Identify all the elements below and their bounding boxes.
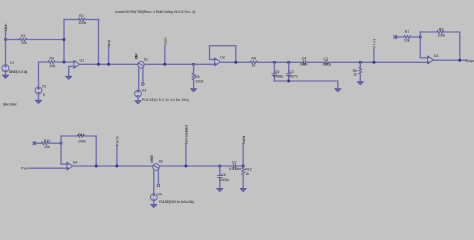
node Vlp flag	[373, 39, 377, 62]
ground wire U1 plus input	[69, 66, 74, 76]
resistor R1	[20, 34, 27, 45]
ground under R5	[190, 89, 196, 92]
svg-text:Sine 1kHz: Sine 1kHz	[3, 102, 17, 106]
wire feedback top right	[85, 19, 98, 21]
junction input node	[4, 38, 7, 41]
wire junction down to U4 inv input	[61, 143, 67, 164]
node PwrF flag	[116, 136, 120, 166]
node Vamp flag	[107, 40, 111, 64]
junction Vamp	[107, 63, 110, 66]
svg-text:V1: V1	[10, 61, 14, 65]
port In3	[394, 35, 404, 38]
wire S1 out	[144, 63, 193, 65]
svg-text:C7: C7	[232, 161, 237, 165]
junction C5	[273, 61, 276, 64]
wire cap ground rail	[274, 81, 337, 89]
svg-text:10k: 10k	[21, 41, 27, 45]
svg-text:U3: U3	[434, 54, 439, 58]
svg-text:100k: 100k	[195, 80, 203, 84]
resistor R2	[78, 14, 86, 25]
svg-text:MYSW: MYSW	[135, 53, 139, 60]
junction feedback/output	[97, 63, 100, 66]
S1 control wire to V3	[138, 68, 140, 90]
ground under V2	[35, 94, 41, 104]
svg-text:C5: C5	[275, 70, 280, 74]
resistor R9	[437, 28, 446, 38]
wire feedback top right	[444, 32, 460, 60]
S2 control wire to V4	[153, 170, 155, 194]
svg-text:C2: C2	[323, 57, 328, 61]
svg-text:PwrIn: PwrIn	[116, 136, 120, 146]
svg-text:10k: 10k	[44, 145, 50, 149]
svg-text:U1: U1	[80, 59, 85, 63]
svg-text:C3: C3	[289, 70, 294, 74]
svg-text:V2: V2	[42, 84, 46, 88]
svg-text:0.001u: 0.001u	[219, 178, 229, 182]
svg-text:R12: R12	[245, 167, 252, 171]
wire C2 to U3	[327, 61, 428, 63]
port In4	[33, 142, 42, 145]
voltage source V1	[2, 61, 27, 74]
resistor R7	[404, 30, 411, 43]
resistor R4	[250, 56, 257, 67]
node MicIn flag	[4, 24, 8, 40]
capacitor C5	[272, 62, 284, 81]
wire R4 right	[257, 61, 303, 63]
capacitor C4 series	[300, 56, 307, 66]
U2 feedback loop	[210, 46, 236, 63]
svg-text:R11: R11	[78, 133, 84, 137]
switch S1	[135, 53, 148, 68]
svg-text:R1: R1	[21, 34, 26, 38]
wire U3 output	[433, 59, 467, 61]
wire V1 up	[5, 40, 7, 65]
wire R3 to opamp	[55, 61, 74, 63]
svg-text:.model MYSW SW(Ron=.1 Roff=1Me: .model MYSW SW(Ron=.1 Roff=1Meg Vt=2.5 V…	[115, 10, 196, 14]
capacitor C2 series	[323, 57, 331, 67]
junction C1	[192, 63, 195, 66]
node Vsw flag	[163, 37, 167, 64]
wire feedback top left	[64, 19, 78, 21]
wire U1 output	[79, 63, 138, 65]
svg-text:S2: S2	[159, 160, 163, 164]
op-amp U4	[67, 161, 78, 171]
svg-text:U2: U2	[220, 55, 225, 59]
svg-text:Output: Output	[465, 59, 474, 63]
wire junction down to U3 inv input	[420, 37, 427, 58]
svg-text:V3: V3	[142, 88, 146, 92]
node PwrSw flag	[185, 125, 189, 166]
ground under R12	[240, 188, 246, 191]
ground under V1	[2, 72, 8, 79]
svg-text:R10: R10	[44, 139, 51, 143]
svg-text:PwOut: PwOut	[242, 136, 246, 144]
resistor R12	[242, 166, 252, 188]
svg-text:MYSW: MYSW	[150, 154, 154, 162]
wire V2 riser	[39, 62, 49, 87]
svg-text:R9: R9	[439, 28, 444, 32]
op-amp U1	[74, 59, 84, 69]
svg-text:C4: C4	[302, 56, 307, 60]
junction R1/feedback	[63, 38, 66, 41]
ground rail	[335, 89, 341, 92]
svg-text:R4: R4	[252, 56, 257, 60]
wire bottom rail left	[29, 167, 67, 169]
wire feedback top left	[420, 31, 437, 33]
junction summing/opamp	[63, 61, 66, 64]
resistor R5 shunt	[192, 64, 204, 88]
svg-text:5: 5	[43, 93, 45, 97]
junction U3 feedback output	[459, 59, 462, 62]
voltage source V4	[150, 192, 194, 203]
svg-text:Demodulated: Demodulated	[185, 125, 189, 144]
junction C6	[219, 165, 222, 168]
svg-text:0.068u: 0.068u	[273, 75, 283, 79]
wire U2 output	[220, 61, 250, 63]
svg-text:0.047u: 0.047u	[300, 63, 307, 67]
node PwrOut flag	[242, 136, 246, 166]
svg-text:0.0056u: 0.0056u	[229, 167, 241, 171]
svg-text:0.027u: 0.027u	[288, 75, 298, 79]
svg-text:S1: S1	[144, 58, 148, 62]
wire R1 to summing node	[27, 39, 64, 41]
wire R10 to junction	[49, 142, 62, 144]
svg-text:Pwr: Pwr	[21, 166, 29, 170]
resistor R6	[353, 62, 362, 81]
capacitor C6	[217, 166, 229, 188]
svg-text:MicIn: MicIn	[4, 24, 8, 31]
junction C3	[287, 61, 290, 64]
svg-text:10k: 10k	[404, 39, 410, 43]
wire feedback right drop	[98, 20, 100, 65]
ground U1	[66, 76, 72, 79]
op-amp U2	[215, 55, 225, 66]
svg-text:1k: 1k	[245, 172, 249, 176]
resistor R11	[77, 133, 86, 144]
resistor R10	[41, 139, 50, 149]
junction U2 feedback	[235, 61, 238, 64]
ground under C6	[217, 188, 223, 191]
junction U3 inv	[419, 36, 422, 39]
op-amp U3	[428, 54, 439, 64]
svg-text:PULSE(0 5 0 1n 1n 5u 10u): PULSE(0 5 0 1n 1n 5u 10u)	[159, 200, 194, 204]
capacitor C7 series	[229, 161, 241, 171]
capacitor C3	[286, 62, 298, 81]
S1 control minus stub	[142, 68, 145, 86]
voltage source V2	[35, 84, 46, 97]
resistor R3	[48, 56, 55, 67]
junction R6	[359, 61, 362, 64]
junction U4 inv	[60, 142, 63, 145]
switch S2	[150, 154, 163, 170]
junction U4 feedback	[95, 165, 98, 168]
wire input to R1	[6, 39, 20, 41]
svg-text:V4: V4	[157, 192, 161, 196]
svg-text:U4: U4	[73, 161, 78, 165]
S2 control minus stub	[157, 170, 160, 187]
ground under V3	[135, 97, 141, 104]
svg-text:100k: 100k	[79, 21, 87, 25]
svg-text:0.015u: 0.015u	[323, 63, 331, 67]
svg-text:R3: R3	[50, 56, 55, 60]
svg-text:100k: 100k	[78, 139, 86, 143]
svg-text:PULSE(0 5 0 1n 1n 5u 10u): PULSE(0 5 0 1n 1n 5u 10u)	[142, 98, 189, 102]
svg-text:C6: C6	[221, 173, 226, 177]
svg-text:1k: 1k	[353, 73, 357, 77]
ground under V4	[151, 201, 157, 208]
junction Vlp	[373, 61, 376, 64]
wire C1 to U2	[194, 63, 215, 65]
junction PwrOut	[242, 165, 245, 168]
junction rail	[287, 80, 290, 83]
wire C4 to C2	[306, 61, 326, 63]
wire feedback up bottom stage	[61, 136, 77, 143]
svg-text:Vswc: Vswc	[163, 37, 167, 46]
svg-text:100k: 100k	[437, 34, 445, 38]
svg-text:SINE(0 1.5 1k): SINE(0 1.5 1k)	[9, 70, 28, 74]
wire feedback up	[419, 32, 421, 37]
wire R7 to junction	[411, 36, 420, 38]
svg-text:Vfilt: Vfilt	[373, 39, 377, 48]
wire summing node vertical	[63, 20, 65, 63]
svg-text:Vamp: Vamp	[107, 40, 111, 48]
svg-text:1k: 1k	[252, 64, 256, 68]
ground under R6	[357, 82, 363, 85]
svg-text:R7: R7	[405, 30, 410, 34]
voltage source V3	[135, 88, 189, 102]
wire S2 out	[159, 165, 243, 167]
svg-text:10k: 10k	[50, 64, 56, 68]
junction Vsw	[164, 63, 167, 66]
wire feedback right drop bottom	[85, 136, 97, 166]
wire U4 output	[72, 165, 152, 167]
svg-text:R2: R2	[79, 14, 84, 18]
junction PwrF	[116, 165, 119, 168]
junction PwrSw	[185, 165, 188, 168]
